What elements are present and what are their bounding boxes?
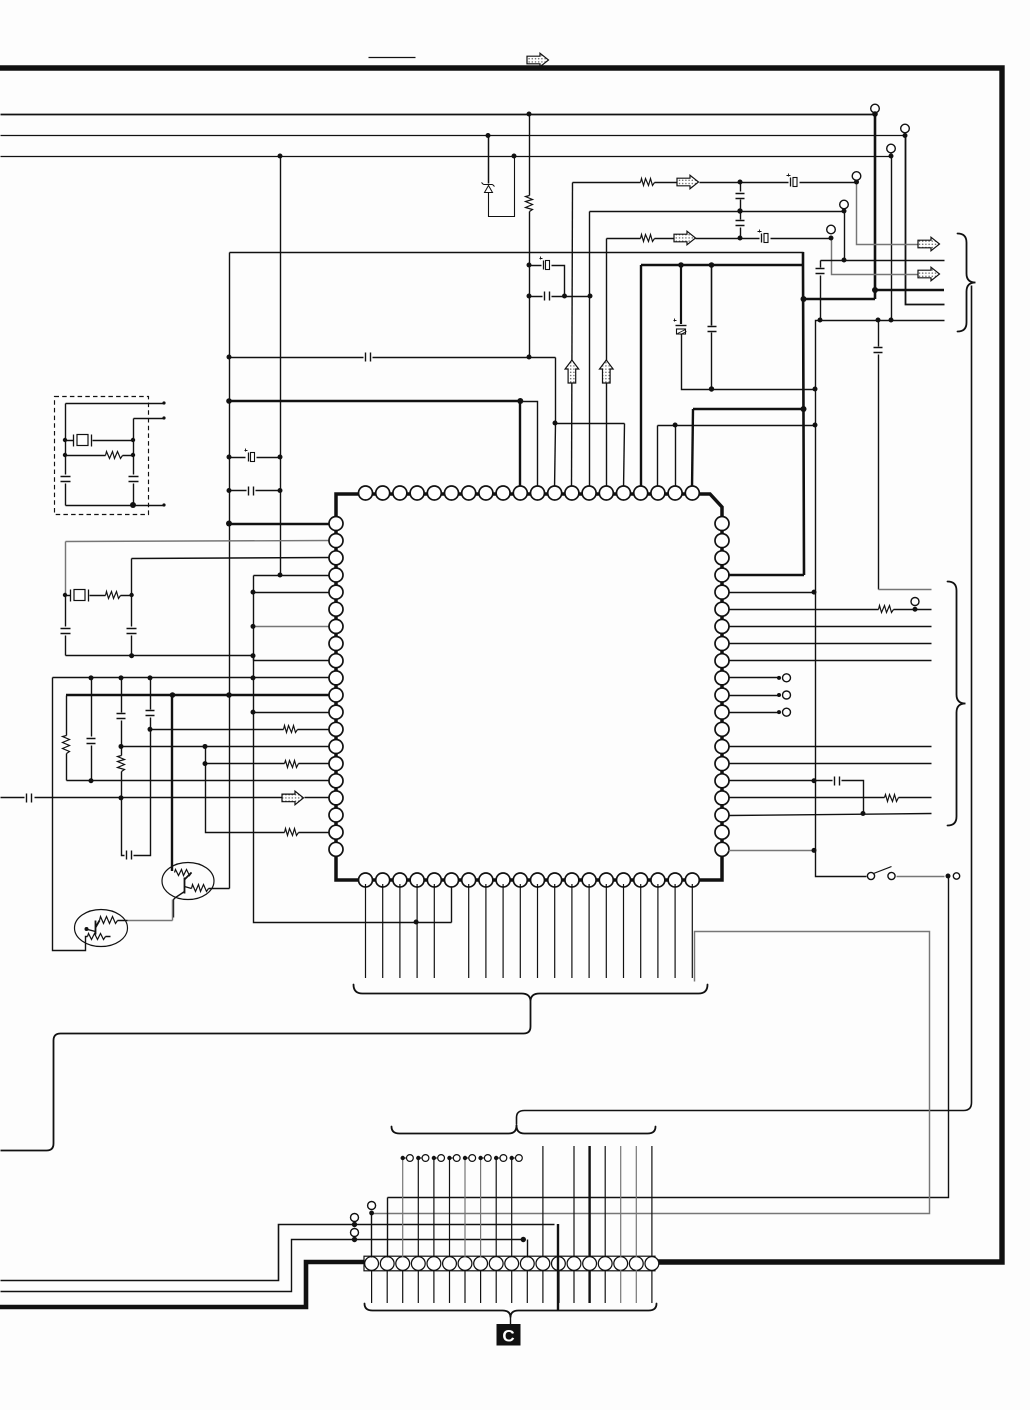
- wire pin2 gray: [66, 541, 331, 542]
- junction 814/780: [812, 778, 817, 783]
- junction 520/401: [517, 398, 523, 404]
- wire y=678 corner: [53, 678, 86, 951]
- junction x514: [512, 154, 517, 159]
- wire pin19 drop: [675, 426, 677, 490]
- junction X1 row: [63, 438, 67, 442]
- wire diode loop: [489, 157, 515, 217]
- wire x=529 lower: [529, 212, 531, 358]
- wire rpin4 thick: [728, 574, 804, 577]
- junction 891/320: [889, 318, 894, 323]
- junction 253/712: [251, 710, 256, 715]
- wire pin12 drop: [555, 424, 556, 490]
- wire y=211: [590, 211, 845, 213]
- resistor R1 x=529: [526, 196, 533, 212]
- Q2 emitter line: [87, 930, 96, 932]
- junction 121/797: [119, 795, 124, 800]
- capacitor C3 x=740 upper: [740, 183, 742, 192]
- junction 529/265: [527, 263, 532, 268]
- junction 891/156: [889, 154, 894, 159]
- wire net1 y=114: [1, 114, 876, 116]
- wire x=891 drop: [891, 154, 893, 321]
- capacitor C10 +ZZ x=681: [680, 265, 682, 324]
- svg-text:C: C: [502, 1327, 514, 1346]
- terminal circle pair b: [351, 1229, 359, 1237]
- brace CN1 top-right: [517, 1126, 656, 1134]
- resistor R11 rpin6: [879, 606, 894, 613]
- stub wire B: [134, 418, 165, 420]
- junction 280/156: [278, 154, 283, 159]
- resistor R3 y=238: [641, 235, 655, 242]
- capacitor C18 x=121: [117, 714, 126, 719]
- test point TP7: [911, 598, 919, 606]
- wire rpin18: [729, 814, 932, 816]
- junction 681/265: [678, 262, 684, 268]
- signal arrow y=238: [674, 231, 696, 245]
- capacitor C19 x=150: [146, 711, 155, 716]
- signal arrow y=182: [677, 175, 699, 189]
- wire rpin17: [729, 797, 932, 799]
- wire exit y=1291: [1, 1240, 524, 1292]
- junction 804/300: [801, 296, 807, 302]
- wire rpin12 stub: [729, 712, 780, 714]
- wire rpin6: [729, 609, 932, 611]
- thick rail x=641 drop: [640, 265, 642, 489]
- junction 205/746: [203, 744, 208, 749]
- junction 529/114: [527, 112, 532, 117]
- wire pin19 left: [285, 832, 331, 834]
- CN1 pins12-19 risers: [543, 1146, 652, 1257]
- terminal circle pair a: [351, 1214, 359, 1222]
- capacitor C21 rpin16: [835, 777, 840, 786]
- wire x=253 vertical: [254, 576, 452, 923]
- switch S1: [867, 872, 874, 879]
- wire x=831 gray drop to arrow: [832, 239, 919, 275]
- capacitor C6 x=878: [878, 321, 880, 347]
- junction 844/211: [842, 209, 847, 214]
- resistor R5 pin15: [285, 761, 299, 768]
- junction 121/746: [119, 744, 124, 749]
- wire pin1 thick: [229, 523, 330, 526]
- junction 815/389: [813, 387, 818, 392]
- header arrow symbol: [527, 53, 549, 67]
- junction 878/320: [876, 318, 881, 323]
- wire rpin11 stub: [729, 695, 780, 697]
- wire X1 bottom: [66, 505, 165, 507]
- node C end: [162, 503, 165, 506]
- wire x=681 below cap: [682, 335, 816, 390]
- wire pin13 left: [151, 729, 331, 731]
- wire x=844 drop: [844, 210, 846, 261]
- crystal X1 row: [66, 440, 134, 442]
- junction 820/320: [818, 318, 823, 323]
- junction 711/265: [709, 262, 715, 268]
- diode D1 zener: [482, 183, 495, 193]
- up arrow on pin13 wire: [565, 360, 579, 383]
- CN1 pin13 riser thick: [557, 1224, 559, 1311]
- wire x=150 chain: [150, 678, 152, 710]
- transistor Q1: [162, 863, 214, 900]
- junction 280/457: [278, 455, 283, 460]
- junction 590/296: [588, 294, 593, 299]
- wire x=66 chain: [66, 696, 68, 736]
- brace CN1 bottom: [365, 1304, 657, 1318]
- resistor R8 X2: [106, 592, 121, 599]
- junction 150/678: [148, 675, 153, 680]
- IC U1 top pin row (pins 61-80): [359, 486, 700, 500]
- Q2 lower resistor: [88, 934, 106, 940]
- wire X1 left vertical: [65, 404, 67, 475]
- wire x=280 vertical: [280, 157, 282, 576]
- junction 905/135: [903, 133, 908, 138]
- junction 253/592: [251, 590, 256, 595]
- capacitor C16: [127, 629, 137, 634]
- wire pin12 left: [254, 712, 331, 714]
- CN1 inline terminals row: [401, 1155, 523, 1162]
- wire pin16 left: [67, 780, 331, 782]
- junction 712/389: [709, 386, 714, 391]
- IC U1 outline: [336, 494, 722, 880]
- wire net2 y=135.5: [1, 135, 906, 137]
- header rule line: [369, 57, 416, 59]
- wire x=529 upper: [529, 115, 531, 196]
- wire pin11 thick: [66, 694, 330, 696]
- wire switch to node gray: [897, 876, 945, 878]
- Q2 collector resistor: [100, 917, 118, 924]
- IC U1 right pin row (pins 41-60): [715, 517, 729, 857]
- junction 229/695: [226, 692, 232, 698]
- thick feed left: [0, 1262, 364, 1307]
- capacitor C11 x=712: [711, 266, 713, 326]
- wire rpin8: [729, 643, 932, 645]
- wire x=815 long drop: [816, 321, 867, 877]
- junction 253/626: [251, 624, 256, 629]
- wire rpin7: [729, 626, 932, 628]
- junction 528/357: [527, 355, 532, 360]
- wire pin18 drop: [657, 426, 659, 490]
- Q1 emitter line: [174, 892, 185, 918]
- capacitor C14: [129, 477, 139, 482]
- junction 229/490: [227, 488, 232, 493]
- junction 523/1239: [521, 1237, 526, 1242]
- CN1 pins3-10 risers: [403, 1158, 512, 1257]
- wire x=875 thick drop: [804, 113, 875, 299]
- wire y=457 link: [230, 457, 281, 459]
- transistor Q2: [75, 910, 128, 947]
- wire pin4: [254, 575, 331, 577]
- wire y=290 thick: [875, 289, 944, 292]
- signal arrow y=244: [918, 237, 940, 251]
- junction 253/678: [251, 675, 256, 680]
- test point TP5 x=844: [840, 200, 849, 209]
- junction 416/922: [414, 920, 419, 925]
- wire y=490 link: [230, 490, 281, 492]
- signal arrow y=274: [918, 267, 940, 281]
- up arrow on pin15 wire: [600, 360, 614, 383]
- junction 253/656: [251, 653, 256, 658]
- junction 831/238: [829, 236, 834, 241]
- junction 280/490: [278, 488, 283, 493]
- signal arrow pin17: [282, 791, 304, 805]
- capacitor C17 x=91: [87, 739, 96, 744]
- wire pin10 drop thick: [519, 401, 521, 489]
- capacitor C2 +B y=238: [761, 234, 763, 243]
- Q1 emitter resistor: [192, 885, 209, 892]
- wire pin5: [254, 592, 331, 594]
- junction 91/780: [89, 778, 94, 783]
- wire pin7 gray: [254, 626, 331, 628]
- wire y=182: [573, 182, 857, 184]
- wire exit y=1280: [1, 1225, 555, 1281]
- wire net3 y=156: [1, 156, 892, 158]
- wire pin17 left: [1, 797, 331, 799]
- junction 875/290: [872, 287, 878, 293]
- wire x=121 chain: [121, 678, 123, 713]
- wire X2 left vertical gray: [65, 542, 67, 596]
- wire gray box route: [372, 932, 930, 1214]
- wire bottom pin6 riser: [451, 885, 453, 923]
- test point TP4 x=856: [852, 172, 861, 181]
- capacitor C8 y=296: [545, 292, 550, 301]
- junction 150/729: [148, 727, 153, 732]
- test point TP2 x=905: [901, 124, 910, 133]
- junction 804/409: [801, 406, 807, 412]
- bus line brace A to connector brace: [517, 286, 972, 1125]
- wire pin14 left: [122, 746, 331, 748]
- Q2 emitter dot: [85, 927, 89, 931]
- node B end: [162, 416, 165, 419]
- resistor R10 x=121: [118, 756, 125, 772]
- junction 229/523: [226, 521, 232, 527]
- CN1 pin2 riser: [387, 1198, 389, 1258]
- wire rpin16: [729, 781, 864, 814]
- wire R7 row: [66, 455, 134, 457]
- Q1 output wire: [209, 888, 230, 890]
- capacitor C22 +B y=457: [248, 453, 250, 462]
- junction x488: [486, 133, 491, 138]
- Q2 base bar: [96, 921, 100, 935]
- wire y=401 thick: [229, 400, 520, 403]
- resistor R2 y=182: [641, 179, 655, 186]
- CN1 pin1 riser: [371, 1214, 373, 1258]
- junction 229/357: [227, 355, 232, 360]
- capacitor C5 x=820: [820, 261, 822, 268]
- test point TP6 x=831: [827, 225, 836, 234]
- wire y=357: [230, 357, 556, 359]
- junction 172/695: [170, 692, 176, 698]
- junction X2 right: [129, 593, 133, 597]
- resistor R7 X1: [106, 452, 123, 459]
- junction 857/182: [854, 180, 859, 185]
- wire brace tip route: [1, 1002, 531, 1151]
- junction 815/425: [813, 423, 818, 428]
- wire pin3: [132, 558, 331, 559]
- brace CN1 top-left: [392, 1126, 517, 1134]
- wire gray y=590: [879, 589, 932, 591]
- wire x=229 vertical: [229, 253, 231, 889]
- capacitor C7 +B y=265: [543, 261, 545, 270]
- wire x=555 jog: [556, 358, 625, 424]
- test point TP1 x=875: [871, 104, 880, 113]
- wire y=425: [658, 425, 816, 427]
- node A end: [162, 401, 165, 404]
- resistor R4 pin13: [284, 726, 298, 733]
- wire pin15 left: [206, 763, 331, 765]
- wire X2 bottom: [66, 655, 254, 657]
- IC bottom pin drop wires: [366, 884, 693, 978]
- junction 229/457b: [227, 455, 232, 460]
- capacitor C15: [61, 629, 71, 634]
- wire y=320: [821, 320, 945, 322]
- wire x=624 drop to pin: [624, 424, 625, 490]
- brace B right: [948, 582, 966, 826]
- wire x=91 chain: [91, 678, 93, 737]
- junction 875/114: [872, 111, 878, 117]
- wire y=238: [607, 238, 832, 240]
- junction 915/609: [913, 607, 918, 612]
- junction 675/425: [673, 423, 678, 428]
- wire diode drop x=488: [488, 136, 490, 184]
- connector CN1 box: [364, 1256, 655, 1271]
- wire rpin14: [729, 746, 932, 748]
- wire rpin10 stub: [729, 677, 780, 679]
- stub wire A: [66, 403, 165, 405]
- junction 948/877: [946, 874, 951, 879]
- wire brace to label: [510, 1318, 512, 1325]
- junction 555/423: [553, 421, 558, 426]
- junction 122/678: [119, 675, 124, 680]
- wire net4 y=252: [230, 252, 804, 254]
- junction 740/211: [737, 208, 742, 213]
- capacitor C12 y=798: [27, 794, 32, 803]
- test point TP3 x=891: [887, 144, 896, 153]
- wire rpin15: [729, 763, 932, 765]
- brace bottom pins: [354, 985, 708, 1002]
- junction 229/401: [226, 398, 232, 404]
- CN1 pin drop wires below: [372, 1270, 652, 1303]
- test point TP10: [783, 708, 791, 716]
- capacitor C23 y=490: [249, 487, 254, 496]
- junction 131/656: [129, 653, 134, 658]
- capacitor C9 y=357: [366, 353, 371, 362]
- brace A right: [958, 234, 976, 332]
- wire x=172 thick drop: [171, 695, 173, 871]
- thick rail x=803: [803, 252, 804, 575]
- wire pin15 drop x=606: [606, 239, 608, 490]
- Q2 entry: [86, 921, 128, 942]
- resistor R12 rpin17: [885, 795, 899, 802]
- resistor R9 x=66: [63, 736, 70, 754]
- junction 863/813: [861, 811, 866, 816]
- capacitor C1 +B y=182: [790, 178, 792, 187]
- Q1 collector line: [185, 887, 192, 889]
- wire rpin9: [729, 660, 932, 662]
- crystal X2 row: [66, 595, 132, 597]
- wire x=205 link: [206, 747, 285, 833]
- CN1 pin1 terminal: [368, 1202, 376, 1210]
- capacitor C13: [61, 477, 71, 482]
- wire X2 right vertical: [131, 559, 133, 627]
- junction 844/260: [842, 258, 847, 263]
- junction 814/849: [812, 848, 817, 853]
- dashed box X1: [55, 397, 149, 515]
- wire Q1-Q2 gray link: [128, 900, 173, 921]
- junction 91/678: [89, 675, 94, 680]
- junction 529/296: [527, 294, 532, 299]
- thick rail y=409: [693, 408, 804, 411]
- CN1 pin11 riser: [527, 1240, 529, 1258]
- IC U1 bottom pin row (pins 21-40): [359, 873, 700, 887]
- wire x=905 drop: [906, 134, 945, 305]
- wire rpin5: [729, 592, 815, 594]
- junction 740/182: [738, 180, 743, 185]
- wire 253 jog to pin9: [253, 656, 255, 661]
- wire pin13 drop x=572: [572, 183, 573, 490]
- wire pin14 drop x=589: [589, 212, 591, 490]
- test point TP9: [783, 691, 791, 699]
- junction X2 left: [63, 593, 67, 597]
- junction 740/238: [738, 236, 743, 241]
- connector CN1 pin circles: [365, 1257, 659, 1271]
- wire pin9: [254, 660, 331, 662]
- wire y=401 thin tail: [521, 402, 538, 490]
- junction 280/575: [278, 573, 283, 578]
- wire X1 right vertical: [133, 419, 135, 475]
- wire rpin20 gray: [729, 850, 815, 852]
- test point TP8: [783, 674, 791, 682]
- capacitor C4 x=740 lower: [740, 200, 742, 220]
- wire X2 left vertical: [65, 596, 67, 627]
- wire x=948 drop: [388, 877, 949, 1198]
- wire pin10 left: [53, 677, 331, 679]
- IC U1 left pin row (pins 1-20): [329, 517, 343, 857]
- thick rail y=265: [641, 264, 803, 267]
- Q1 base bar: [185, 873, 192, 894]
- thick pin20 drop x=693: [692, 409, 693, 489]
- junction X1 bottom: [130, 502, 136, 508]
- wire y=265 link: [530, 266, 565, 297]
- wire x=857 gray drop to arrow: [857, 183, 919, 245]
- junction 814/592: [812, 590, 817, 595]
- junction 205/763: [203, 761, 208, 766]
- resistor R6 pin19: [285, 829, 299, 836]
- Q1 base resistor: [175, 870, 192, 876]
- label C box: [497, 1324, 521, 1346]
- junction 564/296: [562, 294, 567, 299]
- wire y=260: [821, 260, 945, 262]
- terminal stub circle: [953, 873, 959, 879]
- wire y=296 link: [530, 296, 591, 298]
- capacitor C20 y=855: [127, 851, 132, 860]
